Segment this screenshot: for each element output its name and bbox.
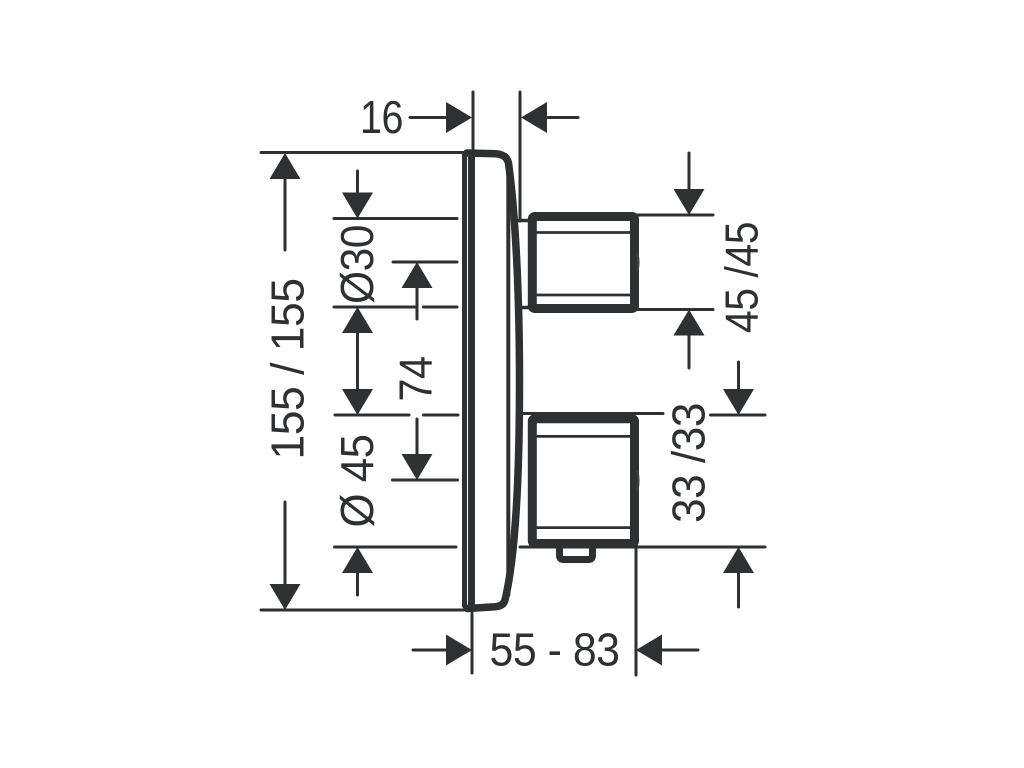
svg-text:16: 16 [360,91,403,143]
dimension line Ø30 top [334,217,457,220]
extension line 55-83 left [471,613,474,673]
plate front rim line [506,168,510,595]
safety stop notch on lower handle [560,545,593,560]
arrow down at Ø45 top [342,389,373,415]
svg-text:74: 74 [390,357,442,402]
dimension 155/155 bottom line [261,609,469,612]
upper handle stem lines [519,221,530,308]
svg-text:33 /33: 33 /33 [663,403,715,523]
arrow up at 74 top [402,262,433,288]
plate back face edge [462,155,467,606]
arrow left at 55-83 right [636,635,662,666]
dimension line 33/33 bottom [520,546,765,549]
arrow down at Ø30 top [356,171,359,192]
dimension line 45/45 top [637,214,713,217]
arrow up at Ø30 bottom [342,307,373,333]
shared tail between Ø30 bottom arrow and Ø45 top arrow [356,333,359,389]
dimension line 74 bottom [393,479,458,482]
arrow up at 45/45 bottom [674,310,705,336]
extension line 55-83 right [635,549,638,675]
lower handle right face bulge [637,471,638,490]
dimension 155/155 top line [261,151,469,154]
arrow down 155 bottom [284,502,287,583]
arrow up 155 top [284,180,287,250]
lower handle U2 outline [532,419,634,544]
dimension line 33/33 top [520,414,765,416]
svg-text:55 - 83: 55 - 83 [490,624,620,676]
extension line 16 right [519,92,522,221]
upper handle U1 outline [532,217,634,309]
arrow down at 45/45 top [688,153,691,189]
dimension line 74 top [393,261,457,264]
dimension line 45/45 bottom [637,308,713,311]
arrow right at 55-83 left [413,649,445,652]
svg-text:45 /45: 45 /45 [716,222,768,333]
svg-text:155 / 155: 155 / 155 [262,279,314,460]
arrow up at 33/33 bottom [723,547,754,573]
plate back face thick line [468,156,475,605]
plate outline (escutcheon side profile) [467,153,520,609]
arrow down at 33/33 top [737,362,740,389]
svg-text:Ø30: Ø30 [331,225,383,304]
arrow up at Ø45 bottom [342,547,373,573]
arrow right at 16 left [410,116,445,119]
dimension line Ø45 bottom [335,546,457,549]
extension line 16 left [472,92,475,150]
lower handle chamfer lines [534,436,630,527]
arrow down at 74 bottom [416,419,419,454]
upper handle chamfer lines [534,233,630,296]
upper handle right face bulge [637,254,638,271]
dimension line Ø30 bottom [334,306,457,309]
dimension line Ø45 top [335,414,458,417]
svg-text:Ø 45: Ø 45 [331,435,383,528]
arrow left at 16 right [521,102,547,133]
